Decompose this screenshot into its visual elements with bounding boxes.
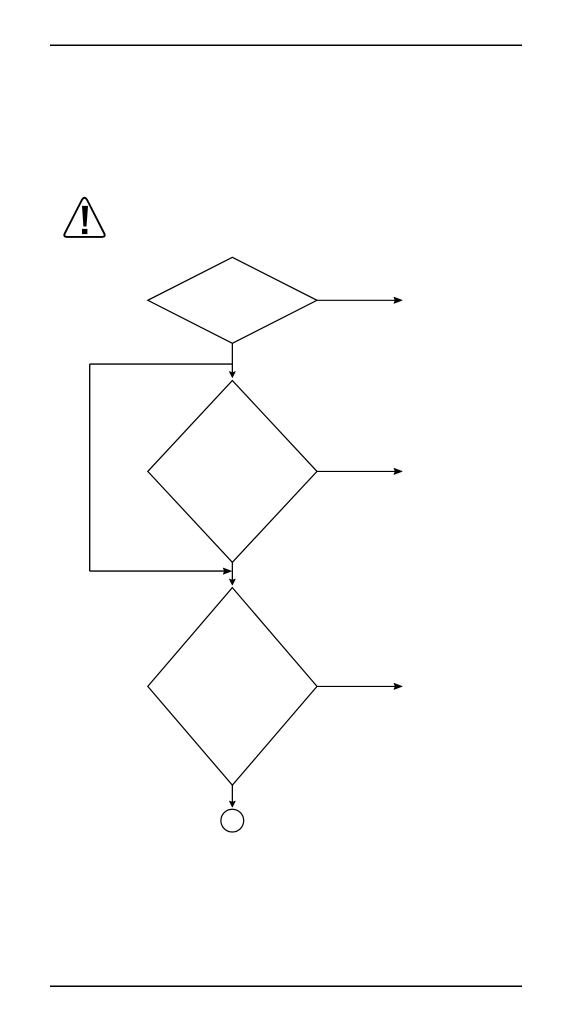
decision diamond D3 xyxy=(148,588,317,786)
loop wire left segment xyxy=(89,364,91,571)
wire D3 bottom to terminator xyxy=(231,785,233,804)
wire D2 bottom to D3 top xyxy=(231,562,233,582)
terminator circle T1 xyxy=(221,809,244,832)
loop wire top segment xyxy=(90,363,233,365)
arrowhead A6 xyxy=(394,683,402,689)
wire D1 bottom to D2 top xyxy=(231,343,233,375)
arrowhead A1 xyxy=(394,297,402,303)
decision diamond D2 xyxy=(148,381,317,563)
arrowhead A3 xyxy=(394,468,402,474)
arrowhead A5 xyxy=(229,579,235,585)
loop wire bottom segment xyxy=(90,570,225,572)
decision diamond D1 xyxy=(148,257,317,343)
wire D1 right exit xyxy=(317,299,396,301)
warning icon W1 xyxy=(64,198,104,237)
header rule xyxy=(50,44,522,46)
arrowhead A2 xyxy=(229,372,235,378)
footer rule xyxy=(50,985,522,987)
wire D3 right exit xyxy=(317,685,396,687)
arrowhead A4 loop junction xyxy=(223,568,231,574)
arrowhead A7 xyxy=(229,801,235,807)
wire D2 right exit xyxy=(317,470,396,472)
